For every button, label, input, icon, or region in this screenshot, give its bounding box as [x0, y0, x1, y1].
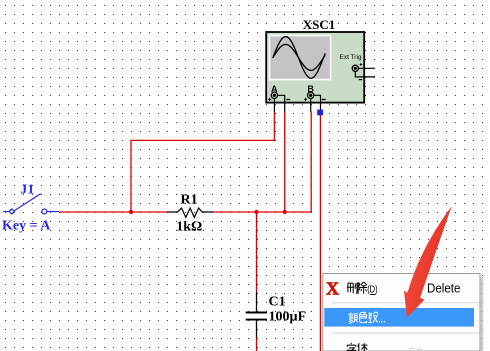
svg-text:(D): (D) — [367, 284, 377, 296]
除 — [358, 282, 367, 294]
svg-text:100µF: 100µF — [269, 309, 307, 324]
label B plus — [304, 98, 307, 101]
体 — [358, 343, 368, 351]
段 — [368, 312, 377, 322]
scope terminal A connector — [271, 92, 277, 98]
capacitor C1 — [246, 292, 267, 338]
menu item CJK text (zi ti = font), clipped at bottom — [347, 343, 368, 351]
svg-text:A: A — [271, 84, 278, 94]
scope screen — [269, 35, 332, 81]
menu highlighted item background — [324, 308, 474, 327]
menu item CJK text (yan se duan = colour segment) — [348, 312, 377, 323]
wire: branch scope A- down to main net — [284, 112, 286, 213]
wire: capacitor branch lower segment — [256, 338, 258, 351]
scope terminal A pin stubs — [274, 95, 284, 112]
menu item delete CJK text (shan chu) — [347, 282, 367, 294]
label A minus — [286, 99, 290, 101]
svg-text:1kΩ: 1kΩ — [176, 220, 202, 235]
label B minus — [322, 99, 326, 101]
wire: scope B+ down to main net end — [310, 112, 312, 213]
字 — [347, 343, 357, 350]
删 — [347, 283, 357, 294]
switch J1 — [3, 194, 59, 215]
scope terminal B connector — [308, 92, 314, 98]
wire: scope B- long vertical down left of menu — [319, 110, 321, 351]
svg-text:J1: J1 — [20, 182, 34, 197]
scope terminal B pin stubs — [311, 95, 321, 112]
svg-text:Key = A: Key = A — [2, 219, 51, 234]
wire: branch to scope A+ (up at x=131, across y=140) — [131, 112, 274, 213]
wire: capacitor branch upper segment — [256, 212, 258, 292]
context menu panel — [481, 277, 485, 351]
scope waveform trace A — [273, 37, 325, 79]
svg-text:X: X — [326, 279, 339, 299]
scope Ext Trig stubs — [355, 68, 375, 77]
menu separator 2 — [332, 332, 480, 334]
svg-text:Ext Trig: Ext Trig — [340, 54, 362, 61]
junction at A- branch — [283, 210, 287, 214]
junction at capacitor branch — [254, 210, 258, 214]
junction at x=131 — [129, 210, 133, 214]
svg-text:XSC1: XSC1 — [303, 17, 336, 32]
faint glyphs bottom right — [409, 348, 423, 351]
selection handle on wire (blue square) — [317, 110, 323, 116]
label Ext plus — [360, 63, 363, 66]
resistor R1 — [167, 208, 213, 217]
ellipsis after highlighted item — [379, 321, 385, 323]
menu separator 1 — [332, 302, 480, 304]
label Ext minus — [359, 79, 362, 81]
scope waveform trace B — [273, 44, 325, 70]
颜 — [348, 313, 357, 324]
svg-text:R1: R1 — [181, 192, 198, 207]
svg-text:B: B — [307, 84, 314, 94]
annotation arrow (red) — [404, 206, 452, 318]
scope Ext Trig connector — [352, 65, 358, 71]
svg-text:Delete: Delete — [427, 281, 460, 296]
wire: main horizontal net from J1 to scope B+ — [59, 211, 311, 213]
色 — [360, 312, 367, 322]
svg-text:C1: C1 — [269, 295, 286, 310]
label A plus — [268, 98, 271, 101]
oscilloscope U=XSC1 body — [266, 32, 364, 103]
